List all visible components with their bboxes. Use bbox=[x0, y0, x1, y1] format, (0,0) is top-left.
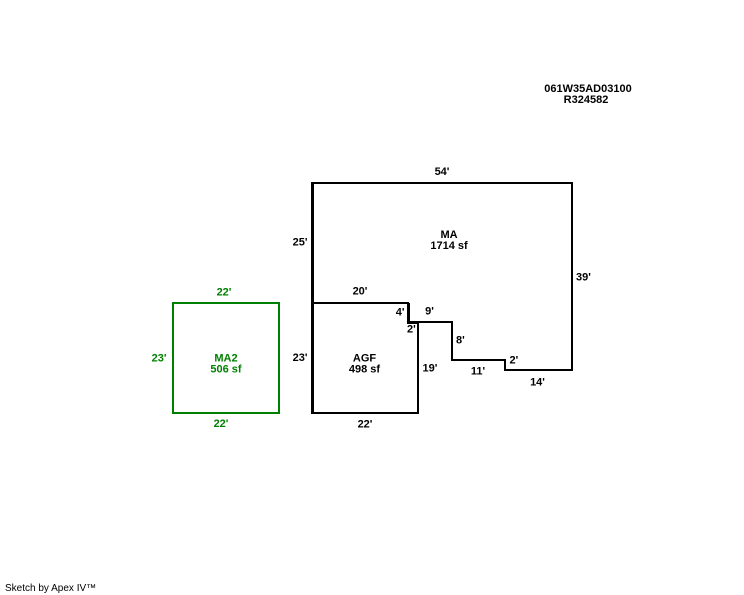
svg-text:22': 22' bbox=[217, 287, 232, 299]
svg-text:9': 9' bbox=[425, 306, 434, 318]
svg-text:54': 54' bbox=[435, 166, 450, 178]
svg-text:22': 22' bbox=[214, 418, 229, 430]
wire shared notch edge overlap vertical bbox=[409, 303, 411, 322]
svg-text:22': 22' bbox=[358, 419, 373, 431]
svg-text:39': 39' bbox=[576, 272, 591, 284]
svg-text:506 sf: 506 sf bbox=[210, 364, 242, 376]
svg-text:Sketch by Apex IV™: Sketch by Apex IV™ bbox=[5, 583, 96, 594]
svg-text:2': 2' bbox=[510, 355, 519, 367]
wire shared notch edge overlap horizontal bbox=[407, 323, 418, 325]
svg-text:23': 23' bbox=[293, 352, 308, 364]
polygon MA2 green square bbox=[173, 303, 279, 413]
wire left edge overlap column bbox=[313, 183, 315, 413]
svg-text:R324582: R324582 bbox=[564, 94, 609, 106]
svg-text:1714 sf: 1714 sf bbox=[430, 240, 468, 252]
polygon AGF outline bbox=[312, 303, 418, 413]
svg-text:20': 20' bbox=[353, 286, 368, 298]
svg-text:23': 23' bbox=[152, 353, 167, 365]
polygon MA outline bbox=[312, 183, 572, 370]
svg-text:11': 11' bbox=[471, 366, 486, 378]
svg-text:4': 4' bbox=[396, 307, 405, 319]
svg-text:498 sf: 498 sf bbox=[349, 364, 381, 376]
svg-text:2': 2' bbox=[407, 324, 416, 336]
svg-text:8': 8' bbox=[456, 335, 465, 347]
svg-text:25': 25' bbox=[293, 237, 308, 249]
svg-text:14': 14' bbox=[530, 377, 545, 389]
svg-text:19': 19' bbox=[423, 363, 438, 375]
